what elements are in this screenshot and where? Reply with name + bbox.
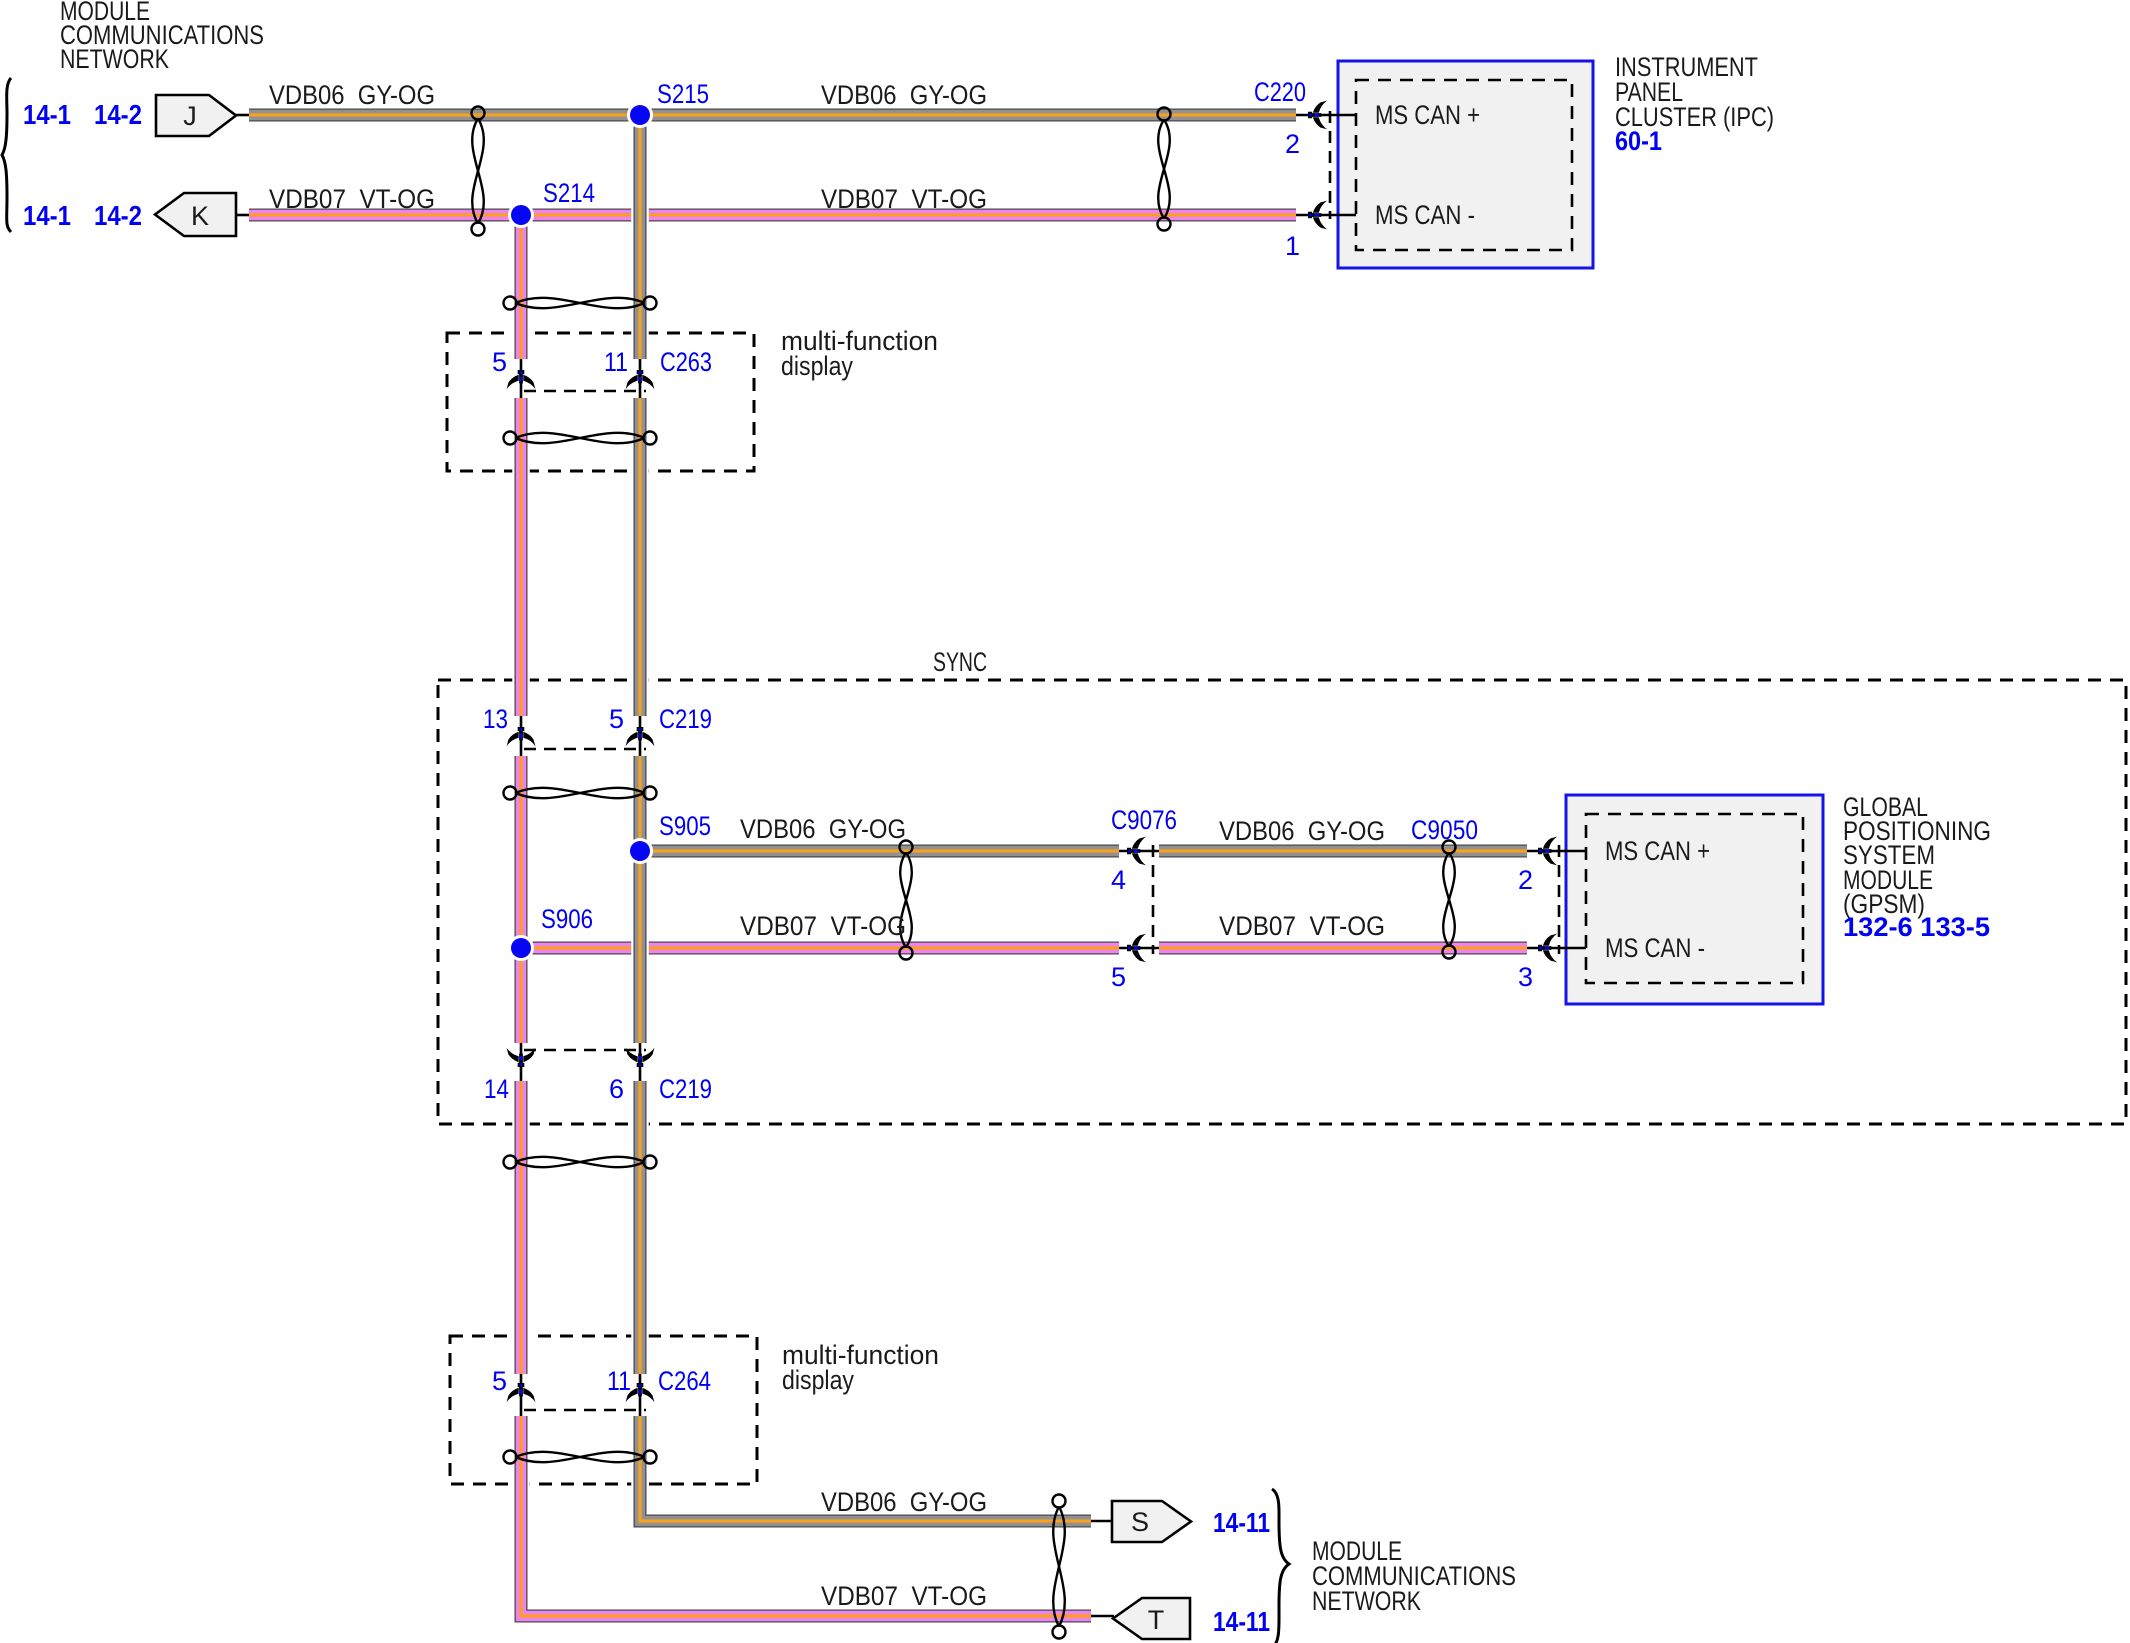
svg-text:C219: C219: [659, 1074, 712, 1104]
pin arrow C219-13: [507, 727, 536, 746]
wire VDB07 vertical C219-13 to C219-14: [512, 756, 530, 1043]
svg-text:14-2: 14-2: [94, 200, 142, 231]
wire VDB06 GY-OG S905 to C9076: [640, 845, 1119, 858]
wire VDB06 vertical C264-11 to connector S: [640, 1416, 1091, 1521]
twisted pair symbol before S-T: [1053, 1495, 1066, 1639]
wire VDB07 VT-OG S906 to C9076: [521, 942, 1119, 955]
pin arrow C263-5: [507, 370, 536, 389]
pin arrow C9050-3: [1538, 934, 1557, 963]
svg-text:11: 11: [607, 1366, 631, 1396]
pin line C264-11: [639, 1372, 642, 1417]
svg-text:14-1: 14-1: [23, 99, 71, 130]
lead line connector J: [236, 114, 250, 117]
svg-text:S215: S215: [657, 79, 709, 109]
svg-text:VDB07 VT-OG: VDB07 VT-OG: [1219, 911, 1385, 941]
wire VDB06 vertical C219-6 to C264-11: [631, 1081, 649, 1374]
twisted pair symbol below S214: [504, 297, 657, 310]
svg-text:S906: S906: [541, 904, 593, 934]
twisted pair symbol before C220: [1158, 108, 1171, 231]
svg-text:14-11: 14-11: [1213, 1507, 1270, 1538]
svg-text:display: display: [782, 1365, 854, 1395]
splice S214: [508, 202, 534, 228]
svg-text:VDB07 VT-OG: VDB07 VT-OG: [740, 911, 906, 941]
svg-text:VDB06 GY-OG: VDB06 GY-OG: [269, 80, 435, 110]
pin line C219-6: [639, 1041, 642, 1082]
pin line C220-2: [1294, 114, 1356, 117]
svg-text:1: 1: [1285, 231, 1300, 261]
svg-text:SYNC: SYNC: [933, 647, 987, 677]
svg-text:S905: S905: [659, 811, 711, 841]
pin arrow C219-14: [507, 1048, 536, 1067]
svg-text:C263: C263: [660, 347, 712, 377]
twisted pair symbol below SYNC box: [504, 1156, 657, 1169]
pin line C263-5: [520, 357, 523, 399]
svg-text:14-1: 14-1: [23, 200, 71, 231]
svg-text:5: 5: [492, 1366, 507, 1396]
svg-text:S: S: [1131, 1507, 1149, 1537]
svg-text:5: 5: [609, 704, 624, 734]
svg-text:5: 5: [1111, 962, 1126, 992]
wire VDB06 vertical S215 to C263-11: [631, 115, 649, 359]
svg-text:VDB06 GY-OG: VDB06 GY-OG: [821, 1487, 987, 1517]
svg-text:VDB07 VT-OG: VDB07 VT-OG: [821, 184, 987, 214]
in-line connector S: [1112, 1501, 1191, 1542]
twisted pair symbol below C219 top: [504, 787, 657, 800]
connector C220 dashed line: [1329, 111, 1332, 219]
wire VDB06 GY-OG from J to C220: [249, 109, 1296, 122]
connector C9050 dashed line: [1558, 845, 1561, 954]
svg-text:C264: C264: [658, 1366, 711, 1396]
svg-text:NETWORK: NETWORK: [60, 44, 169, 74]
pin line C9076-5: [1117, 947, 1160, 950]
wire VDB07 vertical C264-5 to connector T: [521, 1416, 1091, 1616]
in-line connector T: [1113, 1598, 1190, 1639]
svg-text:NETWORK: NETWORK: [1312, 1586, 1421, 1616]
twisted pair symbol before C9076: [900, 841, 913, 960]
svg-text:T: T: [1148, 1605, 1165, 1635]
pin line C9076-4: [1117, 850, 1160, 853]
twisted pair symbol before C9050: [1443, 841, 1456, 959]
pin line C219-14: [520, 1041, 523, 1082]
wire VDB07 VT-OG C9076 to C9050: [1159, 942, 1527, 955]
svg-text:14: 14: [484, 1074, 509, 1104]
twisted pair symbol inside C264 box: [504, 1451, 657, 1464]
wire VDB06 vertical C263-11 to C219-5: [631, 398, 649, 716]
svg-text:6: 6: [609, 1074, 624, 1104]
multi-function display dashed box (lower): [450, 1336, 757, 1484]
svg-text:K: K: [191, 201, 209, 231]
wire VDB06 vertical C219-5 to C219-6: [631, 756, 649, 1043]
twisted pair symbol inside C263 box: [504, 432, 657, 445]
pin arrow C219-6: [626, 1048, 655, 1067]
svg-text:3: 3: [1518, 962, 1533, 992]
svg-text:VDB07 VT-OG: VDB07 VT-OG: [269, 184, 435, 214]
lead line connector T: [1090, 1615, 1114, 1618]
pin arrow C219-5: [626, 727, 655, 746]
svg-text:4: 4: [1111, 865, 1126, 895]
wire VDB06 GY-OG C9076 to C9050: [1159, 845, 1527, 858]
svg-text:11: 11: [604, 347, 628, 377]
right brace bottom: [1272, 1489, 1289, 1643]
instrument panel cluster IPC box: [1338, 61, 1593, 268]
svg-text:J: J: [183, 101, 197, 131]
svg-text:VDB07 VT-OG: VDB07 VT-OG: [821, 1581, 987, 1611]
svg-text:VDB06 GY-OG: VDB06 GY-OG: [740, 814, 906, 844]
svg-text:VDB06 GY-OG: VDB06 GY-OG: [1219, 816, 1385, 846]
pin arrow C220-2: [1308, 101, 1327, 130]
svg-text:VDB06 GY-OG: VDB06 GY-OG: [821, 80, 987, 110]
svg-text:C9076: C9076: [1111, 805, 1177, 835]
splice S906: [508, 935, 534, 961]
svg-text:S214: S214: [543, 178, 595, 208]
pin line C219-13: [520, 714, 523, 757]
pin arrow C263-11: [626, 370, 655, 389]
connector C264 dashed line: [524, 1409, 646, 1412]
svg-text:132-6 133-5: 132-6 133-5: [1843, 912, 1990, 942]
lead line connector S: [1090, 1520, 1112, 1523]
svg-text:60-1: 60-1: [1615, 126, 1662, 156]
splice S905: [627, 838, 653, 864]
connector C219 top dashed line: [524, 748, 646, 751]
svg-text:C220: C220: [1254, 77, 1306, 107]
pin line C9050-2: [1525, 850, 1586, 853]
left brace: [2, 78, 11, 232]
svg-text:C219: C219: [659, 704, 712, 734]
svg-text:MS CAN -: MS CAN -: [1375, 200, 1475, 230]
pin arrow C9050-2: [1538, 837, 1557, 866]
lead line connector K: [236, 214, 250, 217]
pin line C219-5: [639, 714, 642, 757]
pin line C9050-3: [1525, 947, 1586, 950]
pin arrow C9076-5: [1127, 934, 1146, 963]
svg-text:C9050: C9050: [1411, 815, 1478, 845]
wire VDB07 vertical C219-14 to C264-5: [512, 1081, 530, 1374]
svg-text:display: display: [781, 351, 853, 381]
pin arrow C220-1: [1308, 201, 1327, 230]
connector C263 dashed line: [524, 390, 646, 393]
svg-text:MS CAN +: MS CAN +: [1605, 836, 1710, 866]
pin arrow C264-5: [507, 1383, 536, 1402]
pin arrow C264-11: [626, 1383, 655, 1402]
twisted pair symbol near J-K: [472, 107, 485, 236]
svg-text:2: 2: [1285, 129, 1300, 159]
GPSM box: [1566, 795, 1823, 1004]
connector C9076 dashed line: [1152, 845, 1155, 954]
svg-text:MS CAN -: MS CAN -: [1605, 933, 1705, 963]
GPSM inner dashed box: [1586, 814, 1803, 983]
splice S215: [627, 102, 653, 128]
svg-text:13: 13: [483, 704, 508, 734]
pin line C264-5: [520, 1372, 523, 1417]
pin line C220-1: [1294, 214, 1356, 217]
svg-text:MS CAN +: MS CAN +: [1375, 100, 1480, 130]
pin line C263-11: [639, 357, 642, 399]
wire VDB07 vertical C263-5 to C219-13: [512, 398, 530, 716]
svg-text:14-11: 14-11: [1213, 1606, 1270, 1637]
wire VDB07 VT-OG from K to C220: [249, 209, 1296, 222]
svg-text:5: 5: [492, 347, 507, 377]
in-line connector J: [156, 95, 236, 136]
SYNC module dashed box: [438, 680, 2126, 1124]
connector C219 bottom dashed line: [524, 1049, 646, 1052]
svg-text:14-2: 14-2: [94, 99, 142, 130]
in-line connector K: [155, 193, 236, 236]
wire VDB07 vertical S214 to C263-5: [512, 215, 530, 359]
pin arrow C9076-4: [1127, 837, 1146, 866]
IPC inner dashed box: [1356, 80, 1572, 250]
multi-function display dashed box (upper): [447, 333, 754, 471]
svg-text:2: 2: [1518, 865, 1533, 895]
